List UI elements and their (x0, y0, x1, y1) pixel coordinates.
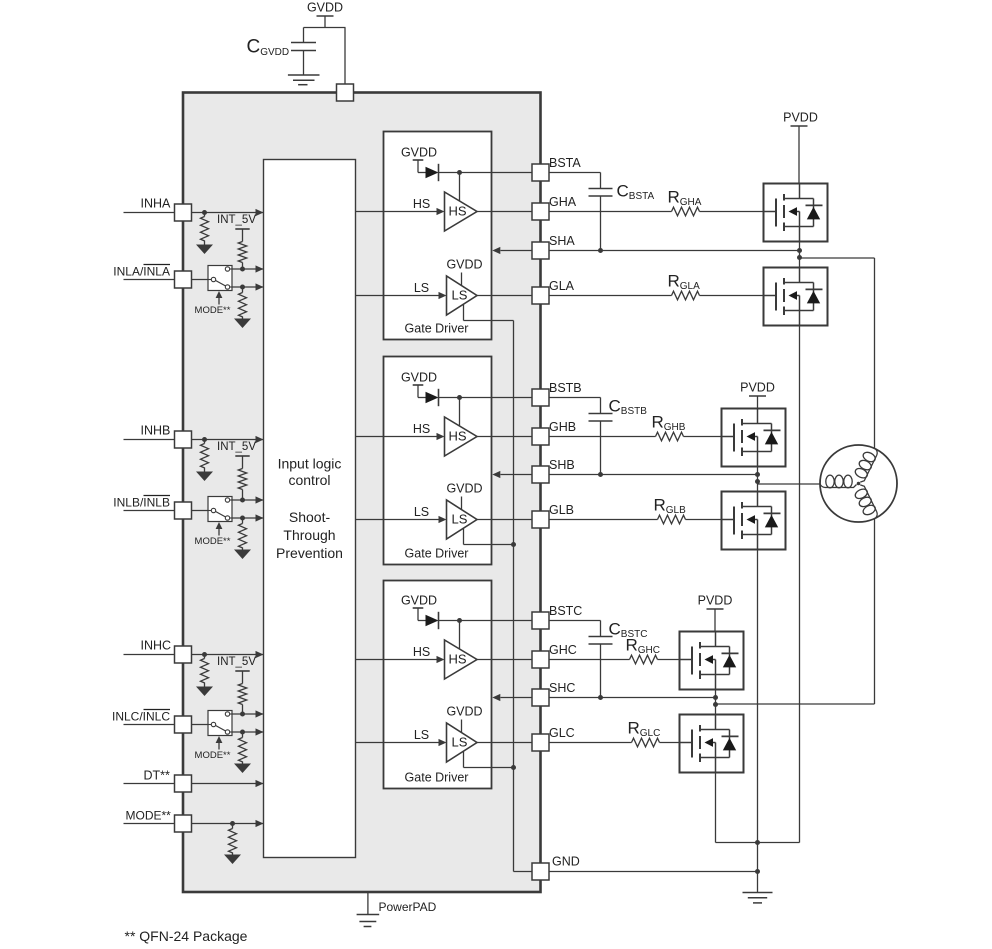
svg-text:SHB: SHB (549, 458, 575, 472)
gate driver B block (384, 357, 492, 565)
wire gate resistor to high-side FET B (684, 436, 722, 438)
wire gate resistor to low-side FET B (686, 519, 722, 521)
pin INLB (175, 502, 192, 519)
pin GVDD (top) (337, 84, 354, 101)
wire gate resistor to low-side FET A (700, 295, 764, 297)
wire DT** (124, 780, 264, 787)
svg-text:BSTA: BSTA (549, 156, 581, 170)
wire INLA (124, 279, 209, 281)
wire SHB return into driver B (492, 471, 532, 478)
pin INHB (175, 431, 192, 448)
svg-text:GVDD: GVDD (446, 705, 482, 719)
wire LS input (driver C) (356, 728, 447, 746)
wire GHC to gate resistor (549, 659, 630, 661)
transistor Q high-side B (722, 409, 786, 467)
svg-text:INHB: INHB (141, 424, 171, 438)
svg-text:PowerPAD: PowerPAD (379, 900, 437, 914)
svg-text:LS: LS (414, 728, 429, 742)
svg-text:HS: HS (448, 204, 466, 219)
pin INLC (175, 716, 192, 733)
diode bootstrap (driver C) (426, 612, 439, 629)
node phase B junction (SH) (755, 472, 760, 477)
buffer HS (driver B) (445, 417, 478, 456)
resistor RGHA (668, 188, 702, 216)
pin INLA (175, 271, 192, 288)
ground arrow (INHC pulldown) (196, 687, 213, 697)
pin SHA (532, 242, 549, 259)
wire HS input (driver C) (356, 645, 445, 663)
wire BSTB (diode to pin) (439, 398, 533, 427)
wire GLB to gate resistor (549, 519, 658, 521)
svg-text:HS: HS (413, 645, 430, 659)
wire GND (549, 871, 758, 873)
svg-text:INLB/INLB: INLB/INLB (113, 496, 170, 510)
svg-text:Prevention: Prevention (276, 545, 343, 561)
MODE** select arrow (INLA) (195, 291, 231, 316)
wire GVDD to pin and capacitor (304, 28, 346, 85)
ground arrow (INHB pulldown) (196, 472, 213, 482)
wire SHC phase sense (549, 697, 716, 699)
resistor INT_5V pullup (INHB channel) (238, 469, 246, 501)
ground arrow (INHA pulldown) (196, 245, 213, 255)
GVDD tap (driver B LS) (446, 482, 482, 510)
node switch lower junction (INLC) (240, 730, 245, 735)
wire switch lower output (INLB) (232, 514, 264, 521)
power INT_5V tap (INHB channel) (217, 441, 256, 469)
node bootstrap junction B (457, 395, 462, 400)
wire BSTC external (549, 621, 601, 637)
wire LS input (driver A) (356, 281, 447, 299)
svg-text:BSTB: BSTB (549, 381, 582, 395)
gate driver A block (384, 132, 492, 340)
pin GLC (532, 734, 549, 751)
svg-text:GVDD: GVDD (307, 1, 343, 15)
svg-text:INT_5V: INT_5V (217, 214, 256, 226)
power INT_5V tap (INHC channel) (217, 656, 256, 684)
wire LS output to GLC pin (477, 742, 532, 744)
wire GHA to gate resistor (549, 211, 672, 213)
svg-text:MODE**: MODE** (195, 536, 231, 547)
wire phase B to motor (758, 483, 821, 485)
svg-text:MODE**: MODE** (126, 809, 172, 823)
wire INHB (124, 436, 264, 443)
transistor Q low-side C (680, 715, 744, 773)
pin MODE (175, 815, 192, 832)
GVDD supply rail (top) (307, 1, 343, 28)
svg-text:** QFN-24 Package: ** QFN-24 Package (125, 928, 248, 944)
transistor Q low-side A (764, 268, 828, 326)
svg-text:PVDD: PVDD (698, 594, 733, 608)
svg-text:GHC: GHC (549, 643, 577, 657)
svg-text:LS: LS (452, 512, 468, 527)
wire low-side source rail C (716, 773, 800, 843)
wire BSTB external (549, 398, 601, 414)
svg-text:GVDD: GVDD (446, 258, 482, 272)
wire low-side source rail A (799, 326, 801, 843)
GVDD tap (driver C bootstrap) (401, 594, 437, 621)
svg-text:GLA: GLA (549, 279, 575, 293)
wire BSTC (diode to pin) (439, 621, 533, 650)
input logic control block (264, 160, 356, 858)
resistor INT_5V pullup (INHA channel) (238, 242, 246, 270)
IC body U1 (gate driver IC) (183, 93, 541, 893)
wire HS output to GHB pin (477, 436, 532, 438)
resistor INT_5V pullup (INHC channel) (238, 684, 246, 715)
wire MODE** (124, 820, 264, 827)
ground arrow (switch pulldown INLC) (234, 764, 251, 774)
wire switch upper output (INLC) (232, 710, 264, 717)
wire between FETs phase C (715, 690, 717, 715)
wire LS output to GLA pin (477, 295, 532, 297)
diode bootstrap (driver B) (426, 389, 439, 406)
pin BSTA (532, 164, 549, 181)
transistor Q high-side C (680, 632, 744, 690)
svg-text:HS: HS (448, 429, 466, 444)
resistor RGLA (668, 272, 701, 300)
svg-text:control: control (288, 472, 330, 488)
wire GLC to gate resistor (549, 742, 632, 744)
wire INLB (124, 510, 209, 512)
wire HS output to GHC pin (477, 659, 532, 661)
svg-text:MODE**: MODE** (195, 750, 231, 761)
capacitor CBSTA (589, 189, 613, 251)
node INHA junction (202, 210, 207, 215)
MODE** select arrow (INLB) (195, 522, 231, 547)
pin GHB (532, 428, 549, 445)
resistor pulldown (switch INLB) (239, 518, 247, 550)
svg-text:GHB: GHB (549, 420, 576, 434)
buffer LS (driver B) (447, 500, 478, 539)
svg-text:INHC: INHC (141, 639, 172, 653)
wire LS input (driver B) (356, 505, 447, 523)
motor M (3-phase windings) (820, 445, 897, 522)
capacitor CBSTB (589, 414, 613, 475)
pin GND (532, 863, 549, 880)
node phase A branch junction (797, 255, 802, 260)
power PVDD (phase A) (783, 111, 818, 184)
svg-text:HS: HS (448, 652, 466, 667)
ground PowerPAD (357, 892, 437, 927)
switch MODE (INLB) (208, 497, 232, 522)
svg-text:INLA/INLA: INLA/INLA (113, 265, 170, 279)
svg-text:Input logic: Input logic (278, 456, 342, 472)
pin GLB (532, 511, 549, 528)
svg-text:GVDD: GVDD (401, 371, 437, 385)
node GND junction (755, 869, 760, 874)
pin DT (175, 775, 192, 792)
power INT_5V tap (INHA channel) (217, 214, 256, 242)
wire HS output to GHA pin (477, 211, 532, 213)
resistor RGHC (626, 636, 661, 664)
wire phase C to motor (716, 519, 875, 705)
wire INLC (124, 724, 209, 726)
svg-text:SHA: SHA (549, 234, 575, 248)
capacitor CBSTC (589, 637, 613, 698)
wire LS output to GLB pin (477, 519, 532, 521)
transistor Q high-side A (764, 184, 828, 242)
wire GHB to gate resistor (549, 436, 656, 438)
svg-text:HS: HS (413, 197, 430, 211)
svg-text:PVDD: PVDD (783, 111, 818, 125)
svg-text:INT_5V: INT_5V (217, 441, 256, 453)
ground arrow (MODE** pulldown) (224, 855, 241, 865)
svg-text:LS: LS (414, 281, 429, 295)
wire switch upper output (INLB) (232, 496, 264, 503)
svg-text:GVDD: GVDD (401, 146, 437, 160)
node INHB junction (202, 437, 207, 442)
pin SHC (532, 689, 549, 706)
node switch upper junction (INLC) (240, 712, 245, 717)
node phase C junction (SH) (713, 695, 718, 700)
resistor RGLB (654, 496, 687, 524)
svg-text:Gate Driver: Gate Driver (405, 771, 469, 785)
wire internal GND bus (514, 321, 533, 872)
pin GHA (532, 203, 549, 220)
svg-text:GLC: GLC (549, 726, 575, 740)
capacitor CGVDD (247, 37, 317, 76)
svg-text:GLB: GLB (549, 503, 574, 517)
label INLC/INLC (112, 710, 170, 724)
switch MODE (INLC) (208, 711, 232, 736)
gate driver C block (384, 581, 492, 789)
node MODE** junction (230, 821, 235, 826)
svg-text:HS: HS (413, 422, 430, 436)
wire BSTA external (549, 173, 601, 189)
buffer LS (driver A) (447, 276, 478, 315)
resistor pulldown (switch INLC) (239, 732, 247, 764)
svg-text:MODE**: MODE** (195, 305, 231, 316)
wire switch lower output (INLC) (232, 728, 264, 735)
svg-text:SHC: SHC (549, 681, 575, 695)
wire low-side source rail B (757, 550, 759, 843)
GVDD tap (driver B bootstrap) (401, 371, 437, 398)
pin INHA (175, 204, 192, 221)
wire SHA phase sense (549, 250, 800, 252)
wire HS input (driver B) (356, 422, 445, 440)
node switch lower junction (INLA) (240, 285, 245, 290)
svg-text:LS: LS (414, 505, 429, 519)
svg-text:Through: Through (283, 527, 335, 543)
svg-text:INHA: INHA (141, 197, 172, 211)
svg-text:INLC/INLC: INLC/INLC (112, 710, 170, 724)
GVDD tap (driver A bootstrap) (401, 146, 437, 173)
wire GLA to gate resistor (549, 295, 672, 297)
svg-text:GHA: GHA (549, 195, 577, 209)
MODE** select arrow (INLC) (195, 736, 231, 761)
pin BSTB (532, 389, 549, 406)
GVDD tap (driver C LS) (446, 705, 482, 733)
svg-text:PVDD: PVDD (740, 381, 775, 395)
node CBSTA junction (598, 248, 603, 253)
svg-text:Gate Driver: Gate Driver (405, 547, 469, 561)
wire switch upper output (INLA) (232, 265, 264, 272)
resistor pulldown INHC (201, 655, 209, 687)
buffer LS (driver C) (447, 723, 478, 762)
power PVDD (phase C) (698, 594, 733, 632)
wire between FETs phase A (799, 242, 801, 268)
wire gate resistor to high-side FET C (658, 659, 680, 661)
node phase A junction (SH) (797, 248, 802, 253)
wire INHC (124, 651, 264, 658)
resistor pulldown INHB (201, 440, 209, 472)
buffer HS (driver C) (445, 640, 478, 679)
node GND bus junction B (511, 542, 516, 547)
node bootstrap junction C (457, 618, 462, 623)
transistor Q low-side B (722, 492, 786, 550)
wire rail to GND net (757, 843, 759, 872)
svg-text:DT**: DT** (144, 769, 171, 783)
wire SHC return into driver C (492, 694, 532, 701)
node CBSTC junction (598, 695, 603, 700)
node CBSTB junction (598, 472, 603, 477)
label INLB/INLB (113, 496, 170, 510)
svg-text:GVDD: GVDD (401, 594, 437, 608)
svg-text:Gate Driver: Gate Driver (405, 322, 469, 336)
pin BSTC (532, 612, 549, 629)
resistor RGLC (628, 719, 661, 747)
wire between FETs phase B (757, 467, 759, 492)
pin GHC (532, 651, 549, 668)
svg-text:LS: LS (452, 735, 468, 750)
resistor pulldown (switch INLA) (239, 287, 247, 319)
svg-text:BSTC: BSTC (549, 604, 582, 618)
node phase B branch junction (755, 479, 760, 484)
wire phase A to motor (800, 258, 875, 449)
GVDD tap (driver A LS) (446, 258, 482, 286)
wire switch lower output (INLA) (232, 283, 264, 290)
resistor RGHB (652, 413, 686, 441)
wire HS input (driver A) (356, 197, 445, 215)
svg-text:GND: GND (552, 855, 580, 869)
svg-text:Shoot-: Shoot- (289, 509, 331, 525)
svg-text:INT_5V: INT_5V (217, 656, 256, 668)
wire LS source to GND bus (driver A) (464, 304, 514, 321)
resistor pulldown INHA (201, 213, 209, 245)
wire LS source to GND bus (driver C) (464, 751, 514, 768)
svg-text:LS: LS (452, 288, 468, 303)
pin INHC (175, 646, 192, 663)
node source rail junction (755, 840, 760, 845)
wire BSTA (diode to pin) (439, 173, 533, 202)
label INLA/INLA (113, 265, 170, 279)
diode bootstrap (driver A) (426, 164, 439, 181)
ground (CGVDD) (288, 75, 320, 85)
node phase C branch junction (713, 702, 718, 707)
pin SHB (532, 466, 549, 483)
node GND bus junction C (511, 765, 516, 770)
wire INHA (124, 209, 264, 216)
wire SHA return into driver A (492, 247, 532, 254)
ground (power stage) (743, 872, 773, 903)
node bootstrap junction A (457, 170, 462, 175)
switch MODE (INLA) (208, 266, 232, 291)
buffer HS (driver A) (445, 192, 478, 231)
wire SHB phase sense (549, 474, 758, 476)
power PVDD (phase B) (740, 381, 775, 409)
ground arrow (switch pulldown INLA) (234, 319, 251, 329)
node switch upper junction (INLA) (240, 267, 245, 272)
node INHC junction (202, 652, 207, 657)
wire LS source to GND bus (driver B) (464, 528, 514, 545)
node switch lower junction (INLB) (240, 516, 245, 521)
wire gate resistor to low-side FET C (660, 742, 680, 744)
resistor pulldown MODE** (229, 824, 237, 855)
svg-text:GVDD: GVDD (446, 482, 482, 496)
node switch upper junction (INLB) (240, 498, 245, 503)
pin GLA (532, 287, 549, 304)
wire gate resistor to high-side FET A (700, 211, 764, 213)
ground arrow (switch pulldown INLB) (234, 550, 251, 560)
